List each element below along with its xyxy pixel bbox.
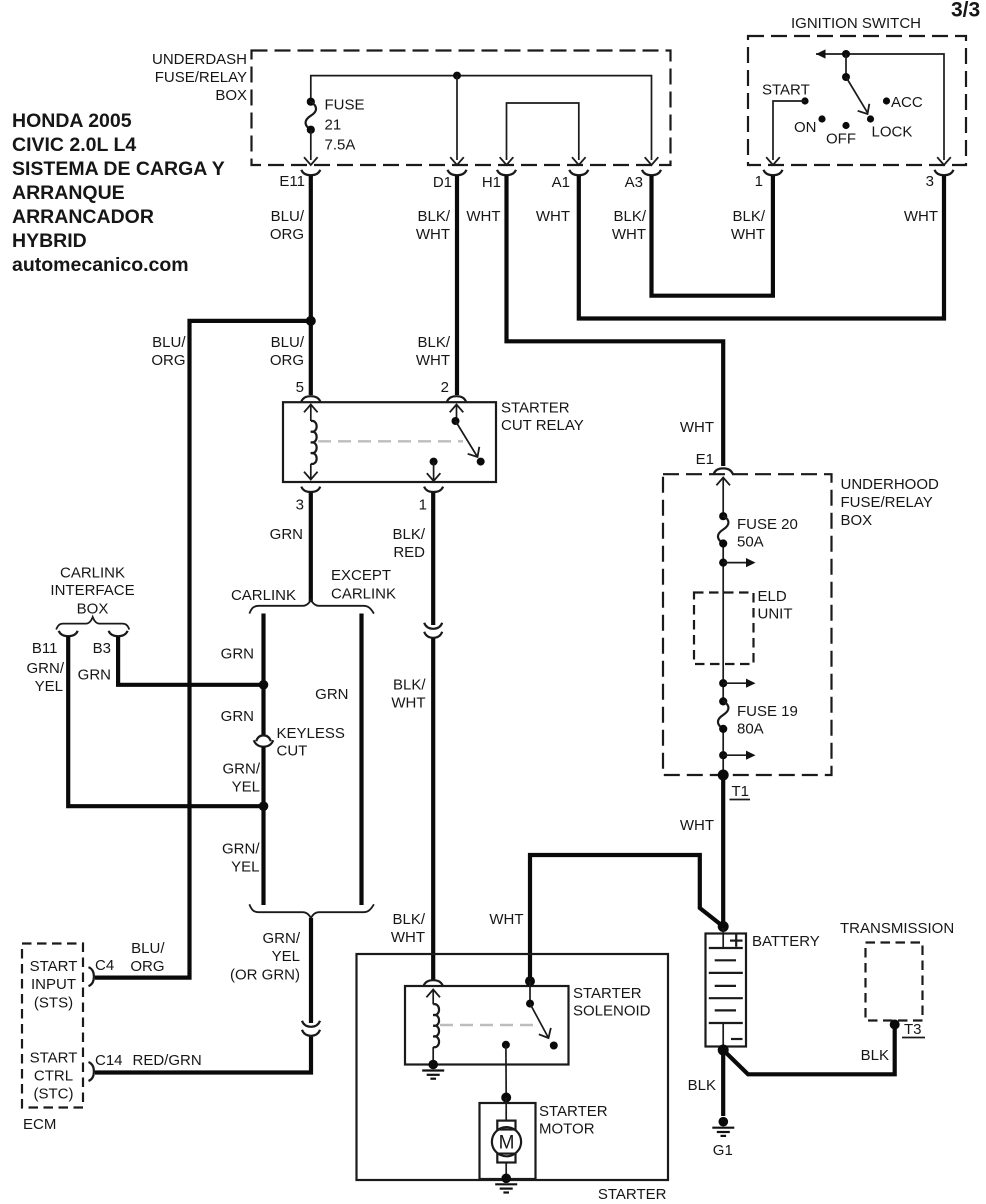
starter motor M1 [492,1098,521,1177]
svg-text:ACC: ACC [891,94,923,111]
connector D1 [433,157,467,191]
svg-text:50A: 50A [737,534,764,551]
svg-text:STARTER: STARTER [598,1186,667,1203]
svg-text:CTRL: CTRL [34,1068,73,1085]
svg-text:A1: A1 [552,174,570,191]
svg-text:YEL: YEL [232,779,260,796]
svg-text:FUSE/RELAY: FUSE/RELAY [155,69,247,86]
svg-text:T3: T3 [904,1021,922,1038]
svg-text:FUSE 19: FUSE 19 [737,703,798,720]
underhood internal feed line [722,478,724,776]
wire break on GRN/YEL wire [302,1021,320,1036]
branch arrow 3 [719,751,755,760]
svg-text:C4: C4 [95,957,114,974]
underhood fuse/relay box [663,474,939,775]
svg-text:BATTERY: BATTERY [752,933,820,950]
connector H1 [482,157,516,191]
svg-text:ELD: ELD [758,588,787,605]
svg-text:T1: T1 [732,783,750,800]
starter motor box [480,1103,608,1179]
wire BLK/WHT A3 to ignition 1 [612,176,773,296]
fuse 19 80A [718,697,798,737]
svg-text:GRN/: GRN/ [27,660,65,677]
starter solenoid coil ground [422,1060,444,1079]
svg-text:A3: A3 [625,174,643,191]
svg-text:UNDERDASH: UNDERDASH [152,51,247,68]
starter solenoid box [405,985,651,1065]
connector 1 (ignition) [755,157,783,190]
carlink interface box [50,565,134,630]
svg-text:GRN: GRN [221,646,254,663]
svg-text:UNDERHOOD: UNDERHOOD [841,476,940,493]
wire: underdash internal bus [311,76,652,160]
svg-text:WHT: WHT [904,208,938,225]
svg-text:GRN/: GRN/ [223,761,261,778]
svg-text:BLU/: BLU/ [271,208,305,225]
connector E11 [279,157,320,190]
svg-text:SOLENOID: SOLENOID [573,1003,651,1020]
ignition position dot ON [794,115,826,136]
svg-text:B11: B11 [32,640,58,657]
svg-text:CARLINK: CARLINK [331,586,396,603]
wire: H1-A1 internal jumper [507,103,579,160]
svg-text:CARLINK: CARLINK [231,587,296,604]
svg-text:BLK/: BLK/ [613,208,646,225]
starter solenoid coil [433,990,439,1063]
svg-text:MOTOR: MOTOR [539,1121,595,1138]
svg-text:BOX: BOX [215,87,247,104]
svg-text:G1: G1 [713,1142,733,1159]
svg-text:5: 5 [296,379,304,396]
wire BLK battery to G1 [688,1050,724,1116]
svg-text:BLU/: BLU/ [131,940,165,957]
svg-text:KEYLESS: KEYLESS [277,725,345,742]
branch arrow 1 [719,558,755,567]
svg-text:HONDA 2005: HONDA 2005 [12,110,132,132]
ignition switch box [748,15,966,165]
svg-text:WHT: WHT [391,929,425,946]
underdash fuse/relay box [152,51,671,166]
svg-text:WHT: WHT [680,419,714,436]
starter solenoid entry connector [424,980,443,997]
svg-text:GRN/: GRN/ [263,930,301,947]
svg-text:3: 3 [296,497,304,514]
svg-text:3: 3 [926,173,934,190]
svg-text:FUSE 20: FUSE 20 [737,516,798,533]
keyless cut connector [254,725,345,760]
ground G1 [712,1117,734,1159]
svg-text:BLK/: BLK/ [392,526,425,543]
node T3 [890,1020,925,1039]
wire WHT H1 to E1 [466,176,723,467]
svg-text:YEL: YEL [272,948,300,965]
ignition position dot OFF [826,122,856,148]
svg-text:BLK/: BLK/ [392,911,425,928]
branch arrow 2 [719,679,755,688]
wire BLU/ORG E11 to relay pin 5 [270,176,311,396]
svg-text:FUSE/RELAY: FUSE/RELAY [841,494,933,511]
svg-text:WHT: WHT [466,208,500,225]
svg-text:(OR GRN): (OR GRN) [230,967,300,984]
carlink merge brace [249,904,374,918]
svg-text:INTERFACE: INTERFACE [50,582,134,599]
ignition START contact and wire [762,82,810,161]
connector C4 [89,957,115,986]
fuse 20 50A [718,512,798,550]
svg-text:WHT: WHT [416,226,450,243]
connector 3 (ignition) [926,157,954,190]
relay pin 1 connector [419,487,443,514]
node: starter motor feed junction [501,1093,511,1103]
svg-text:1: 1 [419,497,427,514]
svg-text:E1: E1 [696,451,714,468]
svg-text:IGNITION SWITCH: IGNITION SWITCH [791,15,921,32]
transmission box [840,920,954,1021]
svg-text:21: 21 [325,117,342,134]
node: bus junction at D1 [453,72,461,160]
svg-text:BLK: BLK [861,1047,889,1064]
svg-text:(STS): (STS) [34,995,73,1012]
ignition switch internal bus with arrow [816,49,944,160]
svg-text:CUT: CUT [277,743,308,760]
svg-text:D1: D1 [433,174,452,191]
svg-text:WHT: WHT [416,352,450,369]
svg-text:ORG: ORG [130,958,164,975]
ELD unit box [694,588,793,664]
svg-text:3/3: 3/3 [951,0,980,22]
svg-text:STARTER: STARTER [573,985,642,1002]
wire WHT A1 to ignition 3 [536,176,944,319]
svg-text:ORG: ORG [270,352,304,369]
ignition rotor junction [842,50,850,81]
svg-text:START: START [30,1050,78,1067]
starter solenoid switch [502,976,558,1097]
svg-text:BLK/: BLK/ [417,208,450,225]
carlink split brace [231,567,396,614]
wire GRN/YEL (OR GRN) to ECM C14 [95,918,311,1073]
wire BLK battery to T3 [723,1027,895,1074]
svg-text:GRN: GRN [315,686,348,703]
node T1 [718,770,750,801]
svg-text:BLU/: BLU/ [152,334,186,351]
connector B11 [32,631,78,657]
svg-text:START: START [762,82,810,99]
starter assembly box [357,954,669,1203]
svg-text:FUSE: FUSE [325,97,365,114]
svg-text:E11: E11 [279,173,305,190]
svg-text:GRN: GRN [78,667,111,684]
solenoid internal dashed link [440,1024,538,1026]
svg-text:WHT: WHT [536,208,570,225]
svg-text:RED: RED [393,544,425,561]
svg-text:ARRANCADOR: ARRANCADOR [12,206,154,228]
relay pin 5 connector [296,379,321,402]
ECM label START INPUT (STS) [30,958,78,1012]
svg-text:CARLINK: CARLINK [60,565,125,582]
svg-text:STARTER: STARTER [539,1103,608,1120]
wire BLU/ORG branch to ECM C4 [95,321,311,978]
wire BLK/WHT D1 to relay pin 2 [416,176,457,396]
svg-text:M: M [499,1133,515,1154]
starter cut relay box [283,400,584,483]
fuse 21 7.5A [306,97,365,161]
svg-text:BLK/: BLK/ [393,677,426,694]
svg-text:UNIT: UNIT [758,606,793,623]
svg-text:SISTEMA DE CARGA Y: SISTEMA DE CARGA Y [12,158,225,180]
connector B3 [93,631,128,657]
svg-text:BLK/: BLK/ [417,334,450,351]
svg-text:ECM: ECM [23,1116,56,1133]
svg-text:RED/GRN: RED/GRN [133,1052,202,1069]
svg-text:BLK/: BLK/ [732,208,765,225]
svg-text:HYBRID: HYBRID [12,230,87,252]
svg-text:GRN/: GRN/ [222,841,260,858]
svg-text:WHT: WHT [680,817,714,834]
wire GRN relay pin 3 to carlink brace [270,493,311,603]
relay internal dashed link [318,440,463,442]
svg-text:80A: 80A [737,721,764,738]
node: BLU/ORG junction on E11 wire [306,316,316,326]
node: B11 junction on carlink wire [259,801,269,811]
svg-text:WHT: WHT [489,911,523,928]
wire GRN except-carlink path [315,614,361,906]
wire BLK/RED relay pin 1 down [392,493,433,626]
wire GRN carlink path upper [221,614,264,735]
svg-text:GRN: GRN [270,526,303,543]
svg-text:TRANSMISSION: TRANSMISSION [840,920,954,937]
svg-text:STARTER: STARTER [501,400,570,417]
ignition rotor arm toward LOCK [846,77,874,123]
svg-text:(STC): (STC) [34,1086,74,1103]
svg-text:ARRANQUE: ARRANQUE [12,182,125,204]
ECM label START CTRL (STC) [30,1050,78,1103]
svg-text:C14: C14 [95,1052,123,1069]
svg-text:YEL: YEL [231,859,259,876]
svg-text:B3: B3 [93,640,111,657]
svg-text:2: 2 [441,379,449,396]
relay pin 3 connector [296,487,321,514]
relay pin 2 connector [441,379,466,402]
svg-text:automecanico.com: automecanico.com [12,254,189,276]
connector E1 [696,451,733,485]
relay switch [427,405,485,482]
svg-text:7.5A: 7.5A [325,137,356,154]
svg-text:LOCK: LOCK [872,124,913,141]
starter motor ground [495,1174,517,1193]
wire GRN/YEL B11 to carlink junction [27,637,261,807]
svg-text:BLU/: BLU/ [271,334,305,351]
node: B3 junction on carlink wire [259,680,269,690]
svg-text:START: START [30,958,78,975]
connector C14 [89,1052,123,1081]
svg-text:ORG: ORG [151,352,185,369]
svg-text:GRN: GRN [221,708,254,725]
wire GRN B3 to carlink junction [78,637,260,685]
connector A1 [552,157,589,191]
title block [12,110,225,276]
ignition position dot ACC [883,94,923,111]
svg-text:YEL: YEL [35,678,63,695]
svg-text:CIVIC 2.0L L4: CIVIC 2.0L L4 [12,134,136,156]
svg-text:WHT: WHT [612,226,646,243]
wire BLK/WHT to starter solenoid [391,639,433,980]
relay coil [304,405,318,480]
svg-text:INPUT: INPUT [31,976,76,993]
ECM box [22,944,83,1134]
svg-text:CUT RELAY: CUT RELAY [501,417,584,434]
connector A3 [625,157,661,191]
svg-text:H1: H1 [482,174,501,191]
svg-text:BOX: BOX [841,512,873,529]
wire break on pin 1 wire [424,623,442,638]
svg-text:EXCEPT: EXCEPT [331,567,391,584]
svg-text:ORG: ORG [270,226,304,243]
svg-text:OFF: OFF [826,131,856,148]
wire GRN/YEL carlink path lower [222,747,264,905]
svg-text:WHT: WHT [731,226,765,243]
battery [706,921,820,1056]
svg-text:1: 1 [755,173,763,190]
wire WHT battery to starter solenoid [489,855,723,981]
svg-text:ON: ON [794,119,817,136]
svg-text:WHT: WHT [391,695,425,712]
wire WHT T1 to battery [680,775,723,927]
svg-text:BLK: BLK [688,1077,716,1094]
